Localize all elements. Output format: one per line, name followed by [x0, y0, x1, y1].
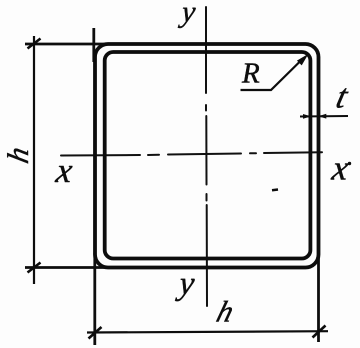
svg-text:y: y [177, 0, 198, 28]
svg-text:t: t [333, 78, 353, 115]
svg-text:h: h [213, 295, 238, 328]
svg-text:x: x [329, 149, 351, 188]
svg-text:R: R [241, 58, 260, 90]
svg-text:y: y [175, 266, 197, 302]
svg-text:h: h [1, 144, 35, 166]
svg-text:x: x [53, 151, 75, 190]
